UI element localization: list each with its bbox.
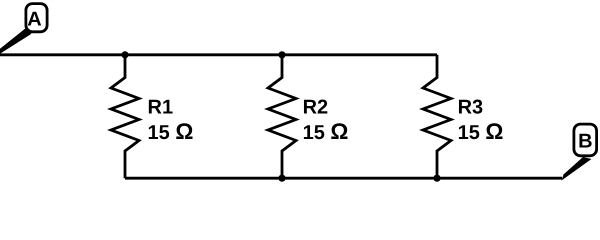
svg-text:R2: R2	[303, 97, 329, 119]
svg-text:15 Ω: 15 Ω	[303, 119, 349, 144]
svg-text:15 Ω: 15 Ω	[458, 119, 504, 144]
svg-text:A: A	[27, 8, 41, 30]
svg-text:15 Ω: 15 Ω	[148, 119, 194, 144]
svg-text:R3: R3	[458, 97, 484, 119]
svg-text:B: B	[578, 130, 592, 152]
svg-text:R1: R1	[148, 97, 174, 119]
